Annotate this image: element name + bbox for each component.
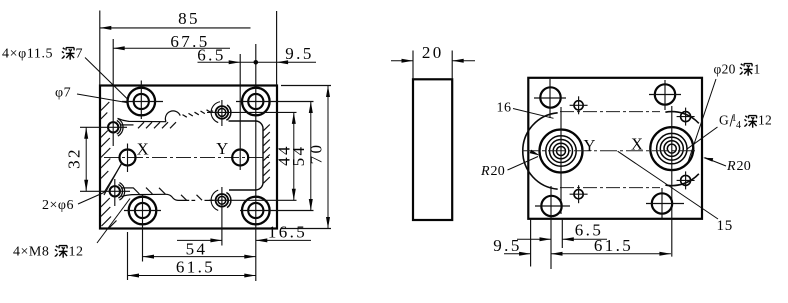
svg-text:12: 12: [758, 113, 772, 128]
svg-text:Y: Y: [216, 139, 228, 158]
svg-text:X: X: [631, 135, 643, 154]
svg-text:12: 12: [69, 245, 84, 260]
svg-text:7: 7: [76, 47, 83, 62]
svg-text:16: 16: [497, 101, 512, 116]
svg-text:85: 85: [178, 9, 200, 28]
svg-text:9.5: 9.5: [493, 236, 521, 255]
svg-text:70: 70: [307, 143, 326, 165]
svg-text:2×φ6: 2×φ6: [42, 198, 74, 213]
svg-text:4×φ11.5: 4×φ11.5: [2, 47, 53, 62]
svg-text:61.5: 61.5: [594, 236, 633, 255]
svg-text:20: 20: [422, 43, 444, 62]
svg-text:20: 20: [737, 159, 752, 174]
svg-text:φ20: φ20: [714, 62, 736, 77]
svg-text:20: 20: [491, 164, 506, 179]
svg-text:16.5: 16.5: [268, 223, 307, 242]
svg-text:4: 4: [736, 120, 741, 131]
svg-text:32: 32: [65, 147, 84, 169]
svg-text:54: 54: [289, 145, 308, 167]
svg-text:54: 54: [186, 240, 208, 259]
svg-text:X: X: [137, 140, 149, 159]
svg-text:R: R: [480, 164, 490, 179]
svg-text:6.5: 6.5: [197, 46, 225, 65]
svg-text:Y: Y: [584, 136, 596, 155]
svg-text:9.5: 9.5: [285, 44, 313, 63]
svg-text:1: 1: [754, 62, 761, 77]
svg-text:15: 15: [717, 218, 734, 234]
svg-text:R: R: [726, 159, 736, 174]
svg-text:G: G: [719, 113, 729, 128]
svg-text:4×M8: 4×M8: [13, 245, 49, 260]
svg-text:61.5: 61.5: [176, 258, 215, 277]
svg-text:φ7: φ7: [55, 86, 71, 101]
